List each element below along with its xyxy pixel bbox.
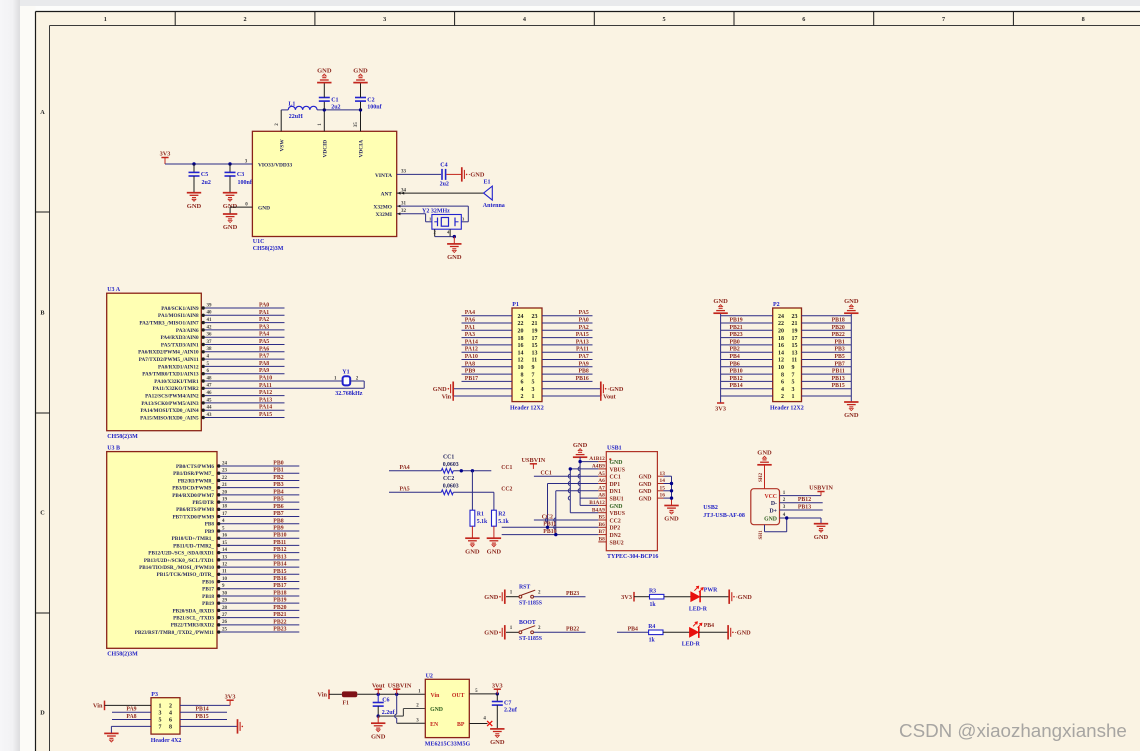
USB1 pin row A5	[598, 475, 606, 477]
svg-text:PA4/RXD3/AIN0: PA4/RXD3/AIN0	[161, 335, 199, 341]
P2 pin row 20/19	[721, 329, 773, 331]
svg-text:38: 38	[207, 347, 213, 352]
svg-text:PA3/AIN6: PA3/AIN6	[176, 328, 199, 334]
svg-text:PB13/U2D+/SCK0_/SCL/TXD1: PB13/U2D+/SCK0_/SCL/TXD1	[144, 558, 215, 564]
svg-text:20: 20	[222, 490, 228, 495]
svg-text:16: 16	[778, 343, 784, 349]
P1 pin row 6/5	[462, 380, 513, 382]
svg-text:37: 37	[207, 340, 213, 345]
P1 pin row 12/11	[462, 359, 513, 361]
svg-text:PB5/DTR: PB5/DTR	[192, 500, 214, 506]
svg-text:PB15: PB15	[832, 383, 845, 389]
svg-text:GND: GND	[371, 733, 386, 740]
wire Vin to F1	[329, 693, 342, 695]
MCU U1C CH58(2)3M body	[252, 131, 396, 236]
svg-text:PA7/TXD2/PWM5_/AIN11: PA7/TXD2/PWM5_/AIN11	[139, 357, 199, 363]
svg-text:1: 1	[159, 704, 162, 710]
U3B pin row PB1	[217, 472, 220, 475]
wire X32MI to Y2 pin 1	[425, 214, 427, 222]
svg-text:PB12: PB12	[798, 497, 811, 503]
svg-text:22: 22	[222, 476, 228, 481]
svg-text:·GND: ·GND	[607, 386, 624, 393]
svg-text:3: 3	[792, 387, 795, 393]
svg-text:PB20: PB20	[273, 605, 286, 611]
svg-text:Vin: Vin	[431, 693, 441, 699]
USB1 pin row B8	[598, 541, 606, 543]
svg-text:CC2: CC2	[501, 486, 512, 492]
svg-text:PB16: PB16	[202, 579, 214, 585]
ground above P2 left	[713, 312, 727, 314]
svg-text:GND: GND	[187, 203, 202, 210]
antenna E1	[484, 186, 493, 200]
svg-text:A: A	[40, 109, 45, 116]
svg-text:PB11: PB11	[273, 540, 286, 546]
ground below R2	[487, 537, 501, 539]
svg-text:PA15: PA15	[259, 412, 272, 418]
svg-text:A7: A7	[598, 485, 605, 491]
P1 pin row 20/19	[462, 329, 513, 331]
svg-text:14: 14	[222, 548, 228, 553]
svg-text:5.1k: 5.1k	[477, 519, 488, 525]
svg-text:22: 22	[518, 321, 524, 327]
svg-text:U3 A: U3 A	[107, 287, 121, 293]
power port 3V3 at P3	[227, 699, 234, 701]
svg-text:6: 6	[521, 380, 524, 386]
svg-text:PB11: PB11	[832, 369, 845, 375]
svg-text:PA8: PA8	[465, 361, 475, 367]
junction node OUT	[496, 692, 499, 695]
svg-text:1: 1	[104, 16, 107, 23]
ground below C5	[187, 192, 201, 194]
P1 pin row 24/23	[462, 315, 513, 317]
svg-text:PB17: PB17	[465, 376, 478, 382]
svg-text:22: 22	[778, 321, 784, 327]
svg-text:C3: C3	[237, 172, 244, 178]
wire USB2 GND to ground	[820, 518, 822, 524]
svg-text:PB23/RST/TMR0_/TXD2_/PWM11: PB23/RST/TMR0_/TXD2_/PWM11	[135, 630, 215, 636]
svg-text:USBVIN: USBVIN	[522, 457, 546, 464]
svg-text:32.768kHz: 32.768kHz	[335, 391, 363, 397]
svg-text:B4A9: B4A9	[592, 507, 605, 513]
svg-text:24: 24	[518, 314, 524, 320]
svg-text:11: 11	[222, 570, 227, 575]
resistor CC2 0,0603	[441, 490, 453, 495]
USB1 pin row A6	[598, 483, 606, 485]
junction node USB2 pin4	[785, 516, 788, 519]
P1 pin row 2/1	[454, 395, 512, 397]
svg-text:PB18: PB18	[202, 594, 214, 600]
svg-text:ST-1185S: ST-1185S	[519, 636, 542, 642]
net label PB4 wire	[617, 631, 649, 633]
U3A pin row PA9	[202, 372, 205, 375]
power port USBVIN at USB1	[530, 463, 537, 465]
U3B pin row PB11	[217, 544, 220, 547]
svg-text:36: 36	[207, 333, 213, 338]
svg-text:PB14/TIO/DSR_/MOSI_/PWM10: PB14/TIO/DSR_/MOSI_/PWM10	[139, 565, 214, 571]
svg-text:U2: U2	[426, 674, 433, 680]
svg-text:Vin: Vin	[93, 703, 103, 710]
svg-text:SH1: SH1	[759, 530, 764, 540]
svg-text:GND: GND	[258, 206, 270, 212]
svg-text:4: 4	[521, 387, 524, 393]
U3B pin row PB23	[217, 630, 220, 633]
wire DP1 rail	[547, 484, 549, 528]
svg-text:41: 41	[207, 318, 213, 323]
ground bar right of P3	[237, 719, 239, 733]
svg-text:3: 3	[383, 16, 386, 23]
capacitor C4 2u2	[441, 169, 443, 180]
svg-text:R1: R1	[477, 512, 484, 518]
svg-text:10: 10	[518, 365, 524, 371]
svg-text:D: D	[40, 710, 45, 717]
svg-text:35: 35	[354, 122, 359, 128]
svg-text:Antenna: Antenna	[483, 203, 505, 209]
wire R4 to LED PB4	[663, 631, 690, 633]
wire DN1 rail	[555, 491, 557, 535]
svg-text:PB19: PB19	[730, 318, 743, 324]
svg-text:47: 47	[207, 384, 213, 389]
svg-text:PA1/MOSI1/AIN8: PA1/MOSI1/AIN8	[158, 313, 199, 319]
svg-text:PB22: PB22	[832, 332, 845, 338]
U1C pin VDCID	[323, 110, 325, 131]
P1 ground bar left	[452, 382, 454, 396]
svg-text:PB11/UD-/TMR2_: PB11/UD-/TMR2_	[173, 543, 214, 549]
svg-text:P2: P2	[773, 302, 780, 308]
power port 3V3 at R3	[633, 592, 635, 602]
svg-text:32: 32	[401, 209, 407, 214]
svg-text:17: 17	[222, 512, 228, 517]
svg-text:22uH: 22uH	[289, 114, 303, 120]
svg-text:GND: GND	[353, 67, 368, 74]
USB2 pin D+	[780, 509, 823, 511]
power port Vout	[377, 689, 379, 694]
svg-text:PB4: PB4	[730, 354, 740, 360]
ground below P2 right	[844, 401, 858, 403]
svg-text:PB13: PB13	[273, 554, 286, 560]
svg-text:12: 12	[518, 358, 524, 364]
ground above USB1	[573, 456, 587, 458]
resistor R3 1k	[650, 594, 664, 599]
svg-text:B5: B5	[599, 515, 606, 521]
svg-text:C4: C4	[440, 162, 447, 168]
svg-text:13: 13	[532, 350, 538, 356]
svg-text:CH58(2)3M: CH58(2)3M	[253, 245, 284, 252]
svg-text:PA8/RXD1/AIN12: PA8/RXD1/AIN12	[158, 364, 199, 370]
svg-text:4: 4	[781, 387, 784, 393]
svg-text:Header 4X2: Header 4X2	[151, 738, 182, 744]
P2 pin row 2/1	[721, 395, 773, 397]
svg-text:SBU2: SBU2	[610, 540, 624, 546]
wire L1 to VDCIA	[317, 109, 360, 111]
svg-text:PB13: PB13	[798, 504, 811, 510]
svg-text:PB19: PB19	[202, 601, 214, 607]
USB2 pin SH1	[764, 525, 766, 532]
svg-text:R4: R4	[648, 624, 655, 630]
svg-text:24: 24	[222, 461, 228, 466]
MCU U3A body	[107, 293, 202, 431]
crystal Y1 32.768kHz	[343, 376, 351, 385]
svg-text:PB5: PB5	[273, 497, 283, 503]
USB1 pin row B1A12	[598, 504, 606, 506]
svg-text:C: C	[40, 510, 44, 517]
svg-text:17: 17	[792, 336, 798, 342]
svg-text:U3 B: U3 B	[107, 445, 120, 451]
svg-text:GND: GND	[664, 516, 679, 523]
svg-text:PA7: PA7	[579, 354, 589, 360]
svg-text:2u2: 2u2	[331, 105, 340, 111]
svg-text:PA14: PA14	[465, 339, 478, 345]
svg-text:PB3: PB3	[273, 482, 283, 488]
svg-text:45: 45	[207, 398, 213, 403]
svg-text:LED-R: LED-R	[682, 642, 701, 648]
svg-text:P3: P3	[151, 692, 158, 698]
ground below USB1 shield	[664, 505, 678, 507]
svg-text:PB0/CTS/PWM6: PB0/CTS/PWM6	[176, 464, 214, 470]
svg-text:11: 11	[532, 358, 538, 364]
svg-text:VCC: VCC	[764, 494, 777, 500]
wire LED PWR to ground	[700, 596, 729, 598]
svg-text:10: 10	[778, 365, 784, 371]
svg-text:DP2: DP2	[610, 526, 621, 532]
svg-text:VDCID: VDCID	[322, 140, 328, 158]
svg-text:46: 46	[207, 391, 213, 396]
svg-text:CC2: CC2	[443, 476, 454, 482]
svg-text:PB2: PB2	[730, 347, 740, 353]
P3 pin3 wire	[112, 711, 151, 713]
svg-text:28: 28	[222, 606, 228, 611]
svg-text:PB1: PB1	[834, 339, 844, 345]
svg-text:GND: GND	[490, 739, 505, 746]
P1 pin row 14/13	[462, 351, 513, 353]
U3B pin row PB0	[217, 464, 220, 467]
svg-text:13: 13	[660, 471, 666, 477]
svg-text:BP: BP	[457, 722, 465, 728]
svg-text:GND: GND	[223, 224, 238, 231]
P1 ground bar right	[600, 382, 602, 396]
svg-text:PA5: PA5	[259, 339, 269, 345]
svg-text:15: 15	[222, 541, 228, 546]
svg-text:PA8: PA8	[259, 361, 269, 367]
svg-text:5: 5	[792, 380, 795, 386]
svg-text:12: 12	[222, 562, 228, 567]
svg-text:PB14: PB14	[273, 562, 286, 568]
svg-text:PA11: PA11	[259, 383, 272, 389]
P3 pin2 wire to 3V3	[180, 704, 230, 706]
U1C pin VDCIA	[360, 110, 362, 131]
wire R3 to LED PWR	[664, 596, 691, 598]
svg-text:C1: C1	[331, 98, 338, 104]
svg-text:PA14/MOSI/TXD0_/AIN4: PA14/MOSI/TXD0_/AIN4	[140, 408, 199, 414]
svg-text:VBUS: VBUS	[610, 511, 625, 517]
svg-text:USB1: USB1	[607, 445, 622, 451]
svg-text:PB17: PB17	[273, 583, 286, 589]
svg-text:GND: GND	[484, 594, 498, 601]
wire junction to R1	[471, 471, 473, 510]
svg-text:GND: GND	[573, 442, 588, 449]
junction nodes shield rail	[670, 482, 673, 485]
svg-text:9: 9	[792, 365, 795, 371]
svg-text:ST-1185S: ST-1185S	[519, 600, 542, 606]
svg-text:JTJ-USB-AF-08: JTJ-USB-AF-08	[703, 513, 745, 519]
svg-text:SBU1: SBU1	[610, 497, 624, 503]
svg-text:11: 11	[792, 358, 798, 364]
svg-text:12: 12	[778, 358, 784, 364]
wire U2 EN to Vin rail	[397, 722, 426, 724]
USB1 pin row A7	[598, 490, 606, 492]
svg-text:PB10: PB10	[730, 369, 743, 375]
capacitor C3 100nf	[229, 164, 231, 172]
svg-text:C2: C2	[367, 98, 374, 104]
svg-text:C7: C7	[504, 701, 511, 707]
svg-text:3V3: 3V3	[160, 151, 171, 158]
capacitor C7 2.2uf	[496, 694, 498, 702]
U3B pin row PB5	[217, 500, 220, 503]
svg-text:PB21: PB21	[730, 325, 743, 331]
P3 pin7 wire to ground	[111, 725, 151, 727]
svg-text:OUT: OUT	[452, 693, 465, 699]
LED PWR LED-R	[691, 592, 700, 601]
P2 power port 3V3	[717, 402, 724, 404]
svg-text:DP1: DP1	[610, 482, 621, 488]
svg-text:18: 18	[518, 336, 524, 342]
U3B pin row PB6	[217, 508, 220, 511]
svg-text:PB9: PB9	[465, 369, 475, 375]
U3B pin row PB2	[217, 479, 220, 482]
svg-text:19: 19	[792, 329, 798, 335]
svg-text:GND: GND	[484, 630, 498, 637]
svg-text:PA9: PA9	[126, 707, 136, 713]
power port 3V3	[161, 157, 168, 159]
svg-text:B1A12: B1A12	[589, 500, 605, 506]
svg-text:23: 23	[222, 469, 228, 474]
junction node C5	[192, 162, 195, 165]
wire C4 to GND bar	[446, 173, 461, 175]
ground above C1	[317, 82, 331, 84]
wire PA10 to Y1	[285, 380, 343, 382]
P1 pin row 16/15	[462, 344, 513, 346]
svg-text:44: 44	[207, 406, 213, 411]
svg-text:0,0603: 0,0603	[443, 484, 459, 490]
svg-text:Vout: Vout	[603, 393, 617, 400]
P2 pin row 22/21	[721, 322, 773, 324]
svg-text:B6: B6	[599, 522, 606, 528]
svg-text:ANT: ANT	[381, 192, 393, 198]
svg-text:GND: GND	[844, 412, 859, 419]
svg-text:40: 40	[207, 311, 213, 316]
junction node C3	[228, 162, 231, 165]
svg-text:B7: B7	[599, 529, 606, 535]
P2 pin row 18/17	[721, 337, 773, 339]
svg-text:PA5: PA5	[400, 487, 410, 493]
svg-text:13: 13	[222, 555, 228, 560]
P1 pin row 4/3	[454, 388, 512, 390]
power port USBVIN at U2	[396, 689, 398, 694]
U1C pin VINTA	[397, 173, 441, 175]
U3A pin row PA0	[202, 306, 205, 309]
USB1 pin row B5	[598, 519, 606, 521]
svg-text:CC2: CC2	[610, 518, 621, 524]
USB1 pin row A8	[598, 497, 606, 499]
svg-text:E1: E1	[484, 179, 491, 185]
ground above C2	[353, 82, 367, 84]
USB2 pin VCC	[780, 495, 822, 497]
USB1 type-C connector body	[606, 452, 657, 551]
svg-text:PB8: PB8	[273, 518, 283, 524]
USB1 pin row B7	[598, 534, 606, 536]
U3B pin row PB19	[217, 601, 220, 604]
svg-text:C5: C5	[201, 172, 208, 178]
svg-text:VBUS: VBUS	[610, 467, 625, 473]
U3A pin row PA15	[202, 416, 205, 419]
U3B pin row PB20	[217, 609, 220, 612]
svg-text:0,0603: 0,0603	[443, 462, 459, 468]
svg-text:9: 9	[532, 365, 535, 371]
svg-text:CSDN @xiaozhangxianshe: CSDN @xiaozhangxianshe	[899, 720, 1127, 741]
svg-text:PA6: PA6	[465, 318, 475, 324]
svg-text:PB6/RTS/PWM8: PB6/RTS/PWM8	[176, 507, 214, 513]
U3A pin row PA8	[202, 365, 205, 368]
svg-text:PA2: PA2	[579, 325, 589, 331]
USB2 pin D-	[780, 502, 823, 504]
svg-text:5: 5	[663, 16, 666, 23]
svg-text:PA6: PA6	[259, 346, 269, 352]
svg-text:PB1: PB1	[273, 468, 283, 474]
svg-text:Y2 32MHz: Y2 32MHz	[422, 208, 450, 214]
svg-text:PB2: PB2	[273, 475, 283, 481]
svg-text:PB10: PB10	[273, 533, 286, 539]
ground above USB2	[757, 464, 771, 466]
svg-text:·GND: ·GND	[736, 594, 753, 601]
svg-text:PB23: PB23	[273, 627, 286, 633]
U1C pin GND	[230, 206, 252, 208]
svg-text:PB21: PB21	[273, 612, 286, 618]
svg-text:31: 31	[401, 201, 407, 206]
ground bar right of C4	[461, 167, 463, 181]
U2 OUT wire	[469, 693, 497, 695]
U3B pin row PB16	[217, 580, 220, 583]
svg-text:D-: D-	[771, 501, 777, 507]
svg-text:PB10/UD+/TMR1_: PB10/UD+/TMR1_	[172, 536, 215, 542]
svg-text:PB15: PB15	[273, 569, 286, 575]
svg-text:100nf: 100nf	[238, 180, 253, 186]
svg-text:8: 8	[1082, 16, 1085, 23]
svg-text:PB20/SDA_/RXD3: PB20/SDA_/RXD3	[172, 608, 214, 614]
P2 right rail wire	[850, 313, 852, 402]
svg-text:VIO33/VDD33: VIO33/VDD33	[258, 163, 292, 169]
junction node Vout	[377, 693, 380, 696]
svg-text:PA2: PA2	[259, 317, 269, 323]
svg-text:PA1: PA1	[259, 310, 269, 316]
U3A pin row PA11	[202, 387, 205, 390]
U3A pin row PA7	[202, 357, 205, 360]
svg-text:PA3: PA3	[259, 324, 269, 330]
svg-text:15: 15	[532, 343, 538, 349]
capacitor C2 100nf	[360, 101, 362, 110]
svg-text:100nf: 100nf	[367, 105, 382, 111]
junction node C6 bottom	[377, 714, 380, 717]
svg-text:EN: EN	[430, 722, 439, 728]
svg-text:PA9: PA9	[259, 368, 269, 374]
svg-text:PA4: PA4	[400, 465, 410, 471]
USB1 shield pins 13-16	[657, 475, 663, 477]
svg-text:6: 6	[802, 16, 805, 23]
inductor L1 22uH	[281, 109, 288, 111]
P2 pin row 6/5	[721, 380, 773, 382]
junction node Y2 ground	[453, 235, 456, 238]
svg-text:21: 21	[222, 483, 228, 488]
svg-text:PA14: PA14	[259, 405, 272, 411]
svg-text:PB22/TMR3/RXD2: PB22/TMR3/RXD2	[171, 623, 215, 629]
